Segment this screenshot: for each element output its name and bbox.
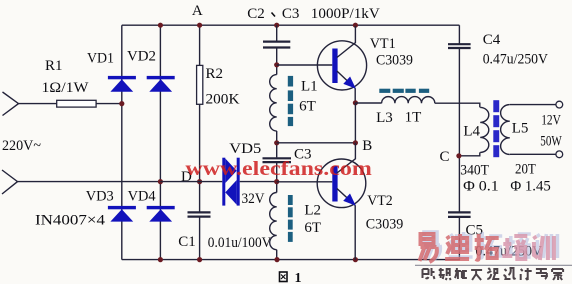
svg-text:L4: L4 (463, 124, 480, 140)
capacitor C5 (448, 212, 542, 259)
wire second bridge column (VD2/VD4 branch) (159, 25, 161, 259)
node C (440, 149, 462, 165)
capacitor C3 (263, 146, 312, 162)
svg-text:R1: R1 (45, 58, 63, 74)
junction L3 tap (353, 100, 358, 105)
svg-text:B: B (362, 138, 372, 154)
wire VT2 base (277, 181, 333, 183)
watermark 射频和天线设计专家 (423, 268, 564, 280)
junction bridge node left (119, 101, 124, 106)
svg-text:50W: 50W (540, 133, 562, 149)
svg-text:6T: 6T (299, 99, 316, 115)
wire node D to DIAC (160, 181, 222, 183)
svg-text:1000P/1kV: 1000P/1kV (311, 6, 380, 22)
svg-text:0.47u/250V: 0.47u/250V (483, 52, 548, 68)
svg-text:1: 1 (295, 271, 302, 284)
inductor L2 (270, 193, 321, 250)
svg-text:C4: C4 (483, 32, 501, 48)
svg-text:www.elecfans.com: www.elecfans.com (185, 158, 372, 180)
wire L2 to bottom rail (276, 250, 278, 260)
transformer core (493, 100, 499, 157)
wire node Y to node B (277, 142, 356, 144)
resistor R2 (197, 65, 240, 107)
node X junction (VT1 base tap) (274, 62, 279, 67)
svg-text:L1: L1 (301, 78, 318, 94)
diode VD3 (86, 189, 136, 222)
svg-text:C3039: C3039 (376, 53, 413, 69)
junction bottom rail C1 column (197, 257, 202, 262)
svg-text:IN4007×4: IN4007×4 (35, 213, 106, 229)
svg-text:VD3: VD3 (86, 189, 114, 205)
wire between taps (354, 103, 356, 143)
svg-text:220V~: 220V~ (2, 138, 41, 154)
svg-text:20T: 20T (515, 162, 536, 178)
wire top rail (122, 24, 460, 26)
svg-text:VD2: VD2 (127, 49, 156, 65)
diode VD2 (127, 49, 175, 92)
svg-text:C: C (440, 149, 450, 165)
wire VT1 base (277, 64, 333, 66)
svg-text:L5: L5 (512, 121, 529, 137)
node D (181, 169, 202, 185)
svg-text:VD1: VD1 (87, 50, 114, 66)
junction top rail mid column (274, 23, 279, 28)
junction top rail transistor column (353, 23, 358, 28)
resistor R1 (42, 58, 97, 107)
svg-text:1Ω/1W: 1Ω/1W (42, 80, 90, 96)
svg-text:C2: C2 (247, 6, 265, 22)
transformer primary L4 (459, 107, 489, 155)
svg-text:0.01u/100V: 0.01u/100V (208, 235, 272, 251)
junction bottom rail L2 (274, 257, 279, 262)
figure caption 图 1 (280, 271, 302, 284)
wire R1 to bridge node (96, 103, 122, 105)
svg-text:C3039: C3039 (366, 216, 404, 232)
watermark big characters ghost (423, 232, 557, 260)
transistor VT2 (317, 143, 403, 260)
wire left bridge column (VD1/VD3 branch) (121, 25, 123, 259)
node Y junction (274, 140, 279, 145)
svg-text:12V: 12V (541, 113, 561, 129)
diode VD1 (87, 50, 136, 92)
inductor L3 (376, 89, 435, 126)
wire bottom rail (122, 259, 460, 261)
svg-text:L2: L2 (304, 203, 321, 219)
wire C3 to node Z (276, 162, 278, 192)
node A (192, 3, 203, 28)
label 12V 50W (540, 113, 562, 150)
svg-text:A: A (192, 3, 203, 19)
svg-text:32V: 32V (242, 191, 265, 207)
wire DIAC to node Z (240, 181, 277, 183)
wire C4 column (458, 25, 460, 259)
svg-text:1T: 1T (405, 110, 422, 126)
svg-text:VT2: VT2 (367, 193, 392, 209)
svg-text:VT1: VT1 (370, 36, 396, 52)
node Z junction (VT2 base tap) (274, 179, 279, 184)
inductor L1 (270, 75, 318, 131)
wire C2 to node X (276, 48, 278, 75)
capacitor C1 (178, 212, 271, 250)
svg-text:C3: C3 (282, 6, 300, 22)
wire AC input 2 to VD2/VD4 node (crosses VD1 column) (18, 181, 161, 183)
svg-text:Φ 0.1: Φ 0.1 (463, 179, 499, 195)
watermark 易迪拓培训 (420, 234, 554, 262)
wire L5 top to terminal (510, 104, 556, 106)
diac VD5 (222, 141, 264, 207)
output terminal top (556, 101, 563, 108)
wire L1 to node Y (276, 131, 278, 157)
wire L3 feed (355, 102, 381, 104)
wire L5 bottom to terminal (510, 153, 556, 155)
diode VD4 (128, 189, 175, 222)
wire AC input 1 to R1 (19, 103, 57, 105)
transformer secondary L5 (501, 105, 529, 155)
svg-text:R2: R2 (206, 66, 224, 82)
svg-text:200K: 200K (206, 91, 240, 107)
svg-text:VD5: VD5 (229, 141, 261, 157)
svg-text:L3: L3 (376, 110, 393, 126)
node B (353, 138, 372, 154)
junction bottom rail VD4 column (158, 257, 163, 262)
svg-text:Φ 1.45: Φ 1.45 (510, 179, 550, 195)
output terminal bottom (556, 151, 563, 158)
transistor VT1 (317, 26, 413, 103)
wire mid column top (276, 25, 278, 41)
svg-text:VD4: VD4 (128, 189, 156, 205)
svg-text:C1: C1 (178, 234, 196, 250)
input terminal arrow 2 (2, 170, 18, 194)
watermark underline (415, 264, 572, 266)
wire L3 to L4 (crosses C4 column) (435, 103, 480, 107)
label C2 C3 1000P/1kV (247, 6, 380, 22)
junction top rail VD2 column (158, 23, 163, 28)
svg-text:6T: 6T (304, 220, 321, 236)
capacitor C4 (448, 32, 548, 68)
wire R2/C1 column (199, 25, 201, 259)
junction AC2 / VD2-VD4 (158, 179, 163, 184)
input terminal arrow 1 (3, 92, 19, 116)
svg-text:340T: 340T (460, 163, 489, 179)
junction bottom rail emitter column (353, 257, 358, 262)
capacitor C2 (263, 42, 290, 48)
